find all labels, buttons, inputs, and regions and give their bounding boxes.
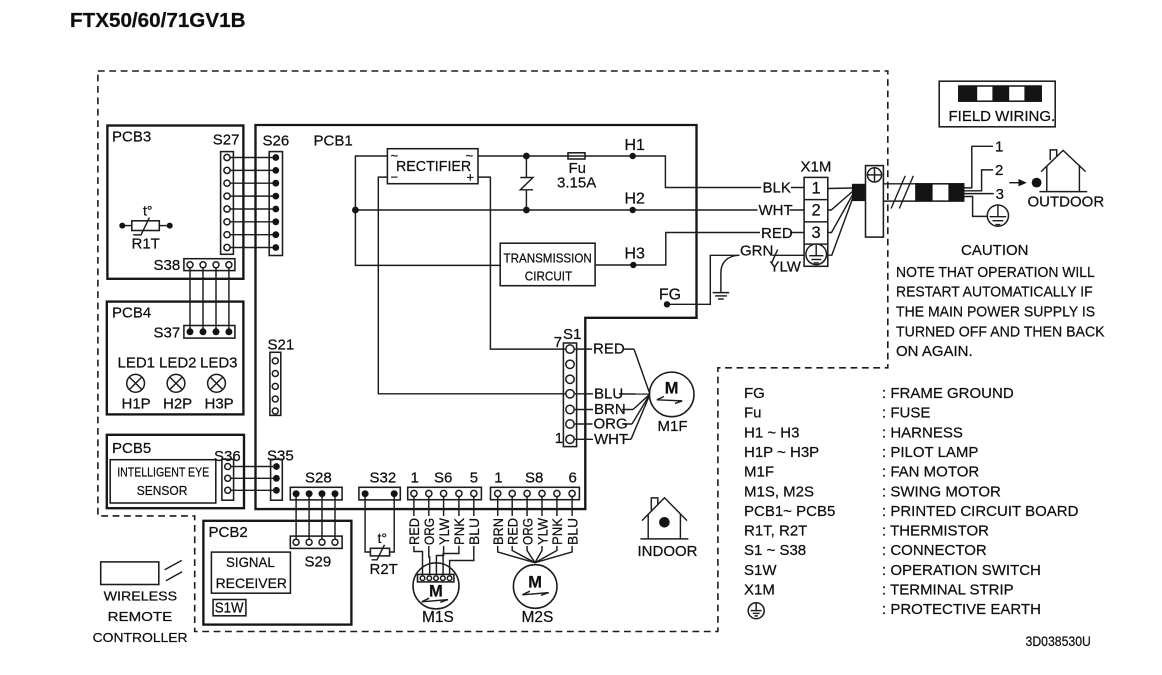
wire S8 pin1 BRN to swing motor M2S — [498, 497, 535, 563]
wire X1M terminal 2 to cable — [828, 192, 853, 211]
svg-text:RED: RED — [593, 341, 625, 358]
svg-text:PNK: PNK — [452, 518, 467, 545]
PCB3 board outline — [107, 126, 243, 279]
outdoor label — [1028, 194, 1105, 211]
wire to outdoor terminal 2 — [964, 170, 993, 191]
svg-text:LED1: LED1 — [118, 355, 156, 372]
wire S28 pin2 to S29 pin2 — [308, 497, 310, 539]
connector S32 label — [370, 470, 397, 487]
svg-text:PCB3: PCB3 — [112, 129, 151, 146]
cable break slashes — [891, 176, 913, 209]
connector S1 pin 7 label — [554, 334, 562, 351]
connector S1 — [563, 343, 576, 447]
wire S8 pin2 RED to swing motor M2S — [512, 497, 535, 563]
svg-text:TURNED OFF AND THEN BACK: TURNED OFF AND THEN BACK — [896, 324, 1105, 341]
svg-text:RECTIFIER: RECTIFIER — [396, 159, 471, 175]
svg-text:S38: S38 — [154, 257, 181, 274]
indoor unit dashed boundary — [98, 71, 888, 632]
wire S6 pin5 BLU to swing motor M1S — [450, 497, 474, 574]
svg-text:WIRELESS: WIRELESS — [104, 588, 178, 603]
svg-text:S37: S37 — [154, 325, 181, 342]
svg-text:M1F: M1F — [658, 418, 688, 435]
svg-text:ON AGAIN.: ON AGAIN. — [896, 343, 973, 360]
svg-text:H3: H3 — [625, 246, 646, 263]
svg-text:RED: RED — [506, 518, 521, 545]
svg-text:LED2: LED2 — [159, 355, 197, 372]
wire label WHT (S1) — [593, 431, 628, 448]
svg-text:S1 ~ S38: S1 ~ S38 — [744, 542, 806, 559]
svg-text:M1S: M1S — [422, 609, 454, 626]
svg-text:PNK: PNK — [550, 518, 565, 545]
svg-text:PCB1: PCB1 — [314, 133, 353, 150]
transmission circuit block — [500, 243, 595, 286]
svg-text:BLU: BLU — [594, 385, 623, 402]
svg-text:NOTE THAT OPERATION WILL: NOTE THAT OPERATION WILL — [896, 264, 1095, 281]
connector S38 — [184, 259, 235, 271]
wire label BLU (S8) — [565, 516, 580, 546]
svg-text:3: 3 — [996, 186, 1004, 203]
thermistor R1T t&#176; value label — [143, 203, 153, 219]
legend H1-H3 — [744, 424, 963, 441]
outdoor unit connection node — [1032, 178, 1042, 188]
wire FG net — [667, 255, 804, 304]
rectifier U1 — [387, 148, 478, 185]
svg-text:H2: H2 — [625, 190, 646, 207]
svg-text:FIELD WIRING.: FIELD WIRING. — [949, 108, 1056, 125]
svg-text:SENSOR: SENSOR — [137, 483, 188, 498]
svg-text:M2S: M2S — [522, 609, 554, 626]
svg-text:: SWING MOTOR: : SWING MOTOR — [882, 483, 1001, 500]
svg-text:PCB2: PCB2 — [209, 524, 248, 541]
svg-text:2: 2 — [812, 202, 821, 220]
terminal X1M protective earth symbol — [806, 244, 827, 265]
svg-text:FG: FG — [659, 287, 681, 304]
svg-text:H2P: H2P — [163, 395, 192, 412]
svg-text:FTX50/60/71GV1B: FTX50/60/71GV1B — [70, 10, 246, 32]
wire label RED — [760, 225, 793, 242]
outdoor protective earth symbol — [987, 205, 1008, 226]
wire S1 pin7 RED to fan motor — [575, 349, 650, 394]
svg-text:RED: RED — [407, 518, 422, 545]
wire S8 pin6 BLU to swing motor M2S — [535, 497, 572, 563]
wire X1M earth terminal to cable — [828, 199, 853, 255]
legend S1W — [744, 562, 1041, 579]
document number 3D038530U — [1026, 634, 1091, 649]
legend FG — [744, 385, 1014, 402]
wire label BLK — [761, 179, 791, 196]
wire S28 pin3 to S29 pin3 — [321, 497, 323, 539]
wire S36 pin2 to S35 pin2 — [231, 477, 273, 479]
svg-text:1: 1 — [494, 469, 502, 486]
node H2 — [625, 190, 646, 213]
wire label RED (S6) — [407, 516, 422, 546]
wire S1 pin2 ORG to fan motor — [575, 394, 650, 424]
svg-text:7: 7 — [554, 334, 562, 351]
connector S6 pin labels 1 S6 5 — [411, 469, 479, 486]
svg-text:6: 6 — [569, 469, 577, 486]
wire S28 pin1 to S29 pin1 — [295, 497, 297, 539]
cable black segment 1 — [852, 184, 866, 201]
wire rectifier plus output to S1 pin7 — [478, 177, 566, 349]
fuse Fu — [568, 153, 585, 159]
wire H2 net to terminal 2 — [355, 209, 804, 211]
legend S1-S38 — [744, 542, 987, 559]
thermistor R1T — [119, 218, 172, 253]
svg-text:R2T: R2T — [370, 561, 398, 578]
svg-text:~: ~ — [391, 148, 399, 163]
connector S1 pin 1 label — [555, 430, 563, 447]
svg-text:H1P ~ H3P: H1P ~ H3P — [744, 444, 819, 461]
svg-text:BRN: BRN — [491, 518, 506, 545]
svg-text:: FAN MOTOR: : FAN MOTOR — [882, 464, 979, 481]
svg-text:1: 1 — [995, 139, 1003, 156]
svg-text:: FUSE: : FUSE — [882, 405, 930, 422]
node FG — [659, 287, 681, 308]
svg-text:2: 2 — [995, 162, 1003, 179]
svg-text:X1M: X1M — [744, 581, 775, 598]
connector S27 — [221, 152, 234, 255]
svg-text:S29: S29 — [305, 554, 332, 571]
connector S37 — [184, 326, 235, 339]
connector S26 — [269, 152, 282, 256]
connector S1 label — [563, 326, 581, 343]
svg-text:3D038530U: 3D038530U — [1026, 634, 1091, 649]
svg-text:BLU: BLU — [565, 518, 580, 545]
wire S27 pin7 to S26 pin7 — [231, 234, 273, 236]
field wiring legend box — [939, 81, 1055, 127]
wire S28 pin4 to S29 pin4 — [334, 497, 336, 539]
svg-text:PCB4: PCB4 — [112, 305, 151, 322]
caution note text — [896, 242, 1105, 360]
svg-text:M: M — [665, 380, 679, 398]
svg-text:3.15A: 3.15A — [557, 174, 596, 191]
cable striped segment — [916, 184, 964, 201]
svg-text:S1W: S1W — [744, 562, 777, 579]
wire to outdoor terminal 1 — [964, 146, 993, 188]
wire to outdoor protective earth — [964, 197, 988, 217]
wire S27 pin5 to S26 pin5 — [231, 208, 273, 210]
PCB5 board outline — [107, 435, 244, 508]
svg-text:WHT: WHT — [759, 202, 793, 219]
wire S8 pin3 ORG to swing motor M2S — [527, 497, 535, 563]
svg-text:: CONNECTOR: : CONNECTOR — [882, 542, 987, 559]
wire S6 pin3 YLW to swing motor M1S — [436, 497, 443, 574]
wire label PNK (S8) — [550, 516, 565, 546]
wire S32 pin1 to R2T left — [365, 496, 370, 552]
svg-text:S21: S21 — [268, 337, 295, 354]
legend M1S M2S — [744, 483, 1001, 500]
legend Fu — [744, 405, 930, 422]
wire label ORG (S6) — [422, 516, 437, 546]
svg-text:t°: t° — [378, 530, 388, 546]
wire S1 pin4 BLU to fan motor — [575, 393, 650, 395]
connector S35 — [271, 459, 283, 500]
svg-text:S32: S32 — [370, 470, 397, 487]
svg-text:THE MAIN POWER SUPPLY IS: THE MAIN POWER SUPPLY IS — [896, 304, 1095, 321]
wire S36 pin3 to S35 pin3 — [231, 489, 273, 491]
wire label ORG (S8) — [520, 516, 535, 546]
svg-text:: FRAME GROUND: : FRAME GROUND — [882, 385, 1014, 402]
node H1 — [625, 137, 646, 159]
svg-text:RECEIVER: RECEIVER — [216, 575, 287, 591]
wire S38 pin4 to S37 pin4 — [228, 268, 230, 330]
svg-text:5: 5 — [470, 469, 478, 486]
connector S29 label — [305, 554, 332, 571]
outdoor terminal 1 label — [995, 139, 1003, 156]
wire label RED (S1) — [592, 341, 625, 358]
svg-text:1: 1 — [812, 179, 821, 197]
terminal strip X1M — [804, 177, 828, 266]
svg-text:+: + — [467, 170, 475, 185]
svg-text:FG: FG — [744, 385, 765, 402]
svg-text:H3P: H3P — [205, 395, 234, 412]
wire S38 pin2 to S37 pin2 — [202, 268, 204, 330]
wire S8 pin5 PNK to swing motor M2S — [535, 497, 557, 563]
legend protective earth symbol — [748, 601, 1041, 619]
wire H3 net to terminal 3 — [595, 233, 804, 266]
svg-text:: HARNESS: : HARNESS — [882, 424, 963, 441]
svg-text:H1P: H1P — [122, 395, 151, 412]
svg-text:TRANSMISSION: TRANSMISSION — [504, 250, 592, 265]
wire label WHT — [758, 202, 793, 219]
varistor Z symbol — [520, 178, 533, 190]
connector S21 — [270, 352, 281, 415]
indoor label — [638, 543, 698, 560]
operation switch S1W — [213, 599, 246, 616]
svg-text:RED: RED — [761, 225, 793, 242]
svg-text:Fu: Fu — [744, 405, 762, 422]
wire S27 pin6 to S26 pin6 — [231, 221, 273, 223]
svg-text:X1M: X1M — [801, 158, 832, 175]
pilot lamp LED1 H1P — [118, 355, 156, 413]
svg-text:REMOTE: REMOTE — [108, 609, 173, 624]
svg-text:: PROTECTIVE EARTH: : PROTECTIVE EARTH — [882, 601, 1041, 618]
wire label BLU (S6) — [467, 516, 482, 546]
wire S27 pin2 to S26 pin2 — [231, 169, 273, 171]
connector S8 — [491, 487, 580, 499]
wire S27 pin1 to S26 pin1 — [231, 157, 273, 159]
wire label YLW (S6) — [437, 516, 452, 546]
connector S37 label — [154, 325, 181, 342]
svg-text:ORG: ORG — [520, 518, 535, 545]
svg-text:YLW: YLW — [437, 518, 452, 545]
legend H1P-H3P — [744, 444, 978, 461]
terminal strip X1M label — [801, 158, 832, 175]
connector S26 label — [263, 133, 290, 150]
wire rectifier AC left input — [355, 156, 500, 265]
wire to outdoor terminal 3 — [964, 193, 994, 195]
wire S38 pin1 to S37 pin1 — [189, 268, 191, 330]
outdoor terminal 2 label — [995, 162, 1003, 179]
wire label ORG (S1) — [593, 416, 628, 433]
wire S6 pin4 PNK to swing motor M1S — [443, 497, 459, 574]
wireless remote controller — [93, 560, 188, 645]
svg-text:OUTDOOR: OUTDOOR — [1028, 194, 1105, 211]
svg-text:: THERMISTOR: : THERMISTOR — [882, 523, 989, 540]
wire S38 pin3 to S37 pin3 — [215, 268, 217, 330]
wire label BLU (S1) — [593, 385, 623, 402]
svg-text:: PRINTED CIRCUIT BOARD: : PRINTED CIRCUIT BOARD — [882, 503, 1079, 520]
connector S6 — [408, 487, 482, 499]
wire label BRN (S1) — [593, 401, 626, 418]
wire S6 pin1 RED to swing motor M1S — [414, 497, 423, 574]
thermistor R2T t&#176; value label — [378, 530, 388, 546]
svg-text:RESTART AUTOMATICALLY IF: RESTART AUTOMATICALLY IF — [896, 284, 1093, 301]
connector S36 — [222, 459, 234, 500]
svg-text:~: ~ — [466, 148, 474, 163]
svg-text:3: 3 — [812, 224, 821, 242]
intelligent eye sensor block — [110, 460, 216, 503]
wire S27 pin3 to S26 pin3 — [231, 182, 273, 184]
wire S6 pin2 ORG to swing motor M1S — [428, 497, 431, 574]
title FTX50/60/71GV1B — [70, 10, 246, 32]
svg-text:−: − — [391, 170, 399, 185]
fan motor M1F — [649, 372, 694, 435]
svg-text:S26: S26 — [263, 133, 290, 150]
connector S21 label — [268, 337, 295, 354]
svg-text:PCB5: PCB5 — [112, 440, 151, 457]
connector S35 label — [267, 448, 294, 465]
svg-text:S28: S28 — [305, 470, 332, 487]
node H3 — [625, 246, 646, 269]
pilot lamp LED3 H3P — [200, 355, 238, 413]
wire S8 pin4 YLW to swing motor M2S — [535, 497, 542, 563]
swing motor M2S — [513, 565, 557, 626]
connector S36 label — [214, 448, 241, 465]
connector S28 — [290, 487, 342, 500]
fuse Fu value label 3.15A — [557, 160, 596, 191]
svg-text:CAUTION: CAUTION — [961, 242, 1029, 259]
outdoor terminal 3 label — [996, 186, 1004, 203]
svg-text:H1: H1 — [625, 137, 646, 154]
svg-text:M1F: M1F — [744, 464, 774, 481]
legend X1M — [744, 581, 1014, 598]
svg-text:ORG: ORG — [422, 518, 437, 545]
connector S32 — [359, 487, 400, 500]
wire rectifier AC right output to H1 and terminal 1 — [478, 156, 804, 188]
svg-text:S1: S1 — [563, 326, 581, 343]
wire label BRN (S8) — [491, 516, 506, 546]
svg-text:S27: S27 — [213, 132, 240, 149]
svg-text:M: M — [429, 583, 443, 601]
wire S36 pin1 to S35 pin1 — [231, 466, 273, 468]
wire label GRN/YLW — [740, 242, 802, 275]
wire label PNK (S6) — [452, 516, 467, 546]
ground chassis symbol — [713, 293, 730, 299]
svg-text:BLU: BLU — [467, 518, 482, 545]
wire X1M terminal 3 to cable — [828, 195, 853, 233]
svg-text:S36: S36 — [214, 448, 241, 465]
svg-text:: PILOT LAMP: : PILOT LAMP — [882, 444, 978, 461]
wire S27 pin8 to S26 pin8 — [231, 247, 273, 249]
cable sheath outline after clamp — [883, 184, 916, 201]
svg-text:S8: S8 — [525, 469, 543, 486]
svg-text:H1 ~ H3: H1 ~ H3 — [744, 424, 799, 441]
connector S29 — [290, 536, 342, 548]
svg-text:: OPERATION SWITCH: : OPERATION SWITCH — [882, 562, 1041, 579]
legend M1F — [744, 464, 979, 481]
connector S28 label — [305, 470, 332, 487]
wire rectifier minus output to S1 pin4 — [378, 177, 566, 394]
svg-text:R1T, R2T: R1T, R2T — [744, 523, 807, 540]
cable clamp with screw — [866, 166, 884, 238]
svg-text:M1S, M2S: M1S, M2S — [744, 483, 814, 500]
svg-text:BLK: BLK — [763, 179, 791, 196]
svg-text:INTELLIGENT EYE: INTELLIGENT EYE — [117, 465, 209, 480]
indoor house icon — [640, 498, 688, 539]
varistor branch wire — [525, 156, 527, 210]
node junction on AC left — [352, 207, 359, 214]
svg-text:R1T: R1T — [132, 235, 160, 252]
PCB1 board outline — [256, 125, 697, 509]
arrow to outdoor unit — [1009, 179, 1027, 186]
terminal X1M pin 2 — [812, 202, 821, 220]
terminal X1M pin 3 — [812, 224, 821, 242]
wire X1M terminal 1 to cable — [828, 187, 853, 190]
node junction varistor bottom — [523, 207, 530, 214]
svg-text:YLW: YLW — [770, 258, 802, 275]
svg-text:LED3: LED3 — [200, 355, 238, 372]
svg-text:CIRCUIT: CIRCUIT — [525, 268, 573, 283]
signal receiver block — [211, 552, 290, 593]
wire S32 pin2 to R2T right — [390, 496, 395, 552]
node junction varistor top — [523, 153, 530, 160]
svg-text:S1W: S1W — [215, 599, 245, 616]
svg-text:PCB1~ PCB5: PCB1~ PCB5 — [744, 503, 835, 520]
connector S27 label — [213, 132, 240, 149]
svg-text:M: M — [528, 574, 542, 592]
legend PCB1-PCB5 — [744, 503, 1079, 520]
pilot lamp LED2 H2P — [159, 355, 197, 413]
wire branch to chassis ground — [721, 255, 738, 292]
wire label RED (S8) — [506, 516, 521, 546]
svg-text:GRN: GRN — [740, 242, 773, 259]
svg-text:1: 1 — [555, 430, 563, 447]
wire S1 pin3 BRN to fan motor — [575, 394, 650, 409]
PCB4 board outline — [107, 302, 244, 415]
svg-text:S6: S6 — [434, 469, 452, 486]
svg-text:SIGNAL: SIGNAL — [226, 554, 275, 570]
svg-text:WHT: WHT — [594, 431, 628, 448]
thermistor R2T — [370, 545, 398, 578]
wire label YLW (S8) — [535, 516, 550, 546]
terminal X1M pin 1 — [812, 179, 821, 197]
svg-text:YLW: YLW — [535, 518, 550, 545]
svg-text:1: 1 — [411, 469, 419, 486]
outdoor house icon — [1039, 150, 1087, 192]
connector S38 label — [154, 257, 181, 274]
wire S1 pin1 WHT to fan motor — [575, 395, 650, 440]
svg-text:t°: t° — [143, 203, 153, 219]
svg-text:: TERMINAL STRIP: : TERMINAL STRIP — [882, 581, 1014, 598]
wire S27 pin4 to S26 pin4 — [231, 195, 273, 197]
legend R1T R2T — [744, 523, 989, 540]
svg-text:CONTROLLER: CONTROLLER — [93, 630, 188, 645]
swing motor M1S — [413, 563, 459, 626]
PCB2 board outline — [203, 521, 351, 625]
connector S8 pin labels 1 S8 6 — [494, 469, 577, 486]
svg-text:INDOOR: INDOOR — [638, 543, 698, 560]
